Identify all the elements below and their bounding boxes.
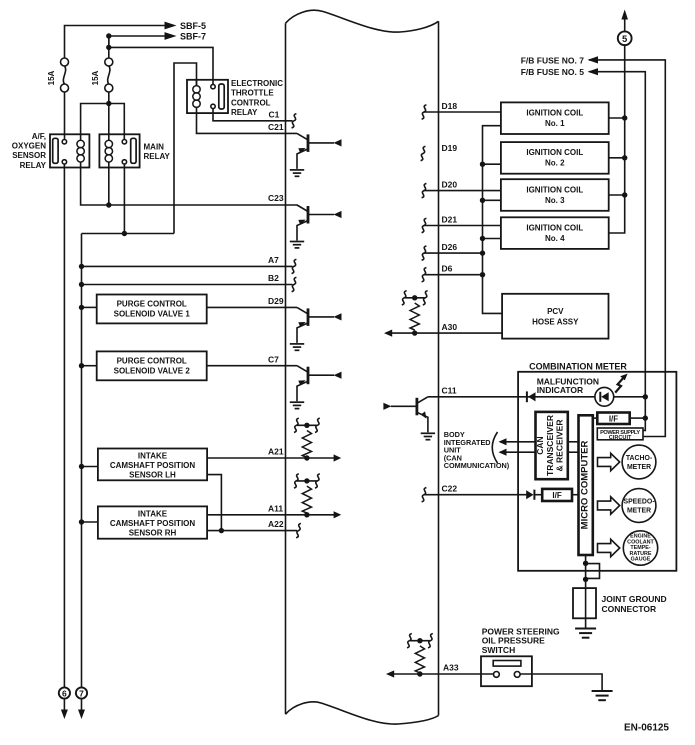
svg-text:C22: C22 xyxy=(442,483,458,493)
svg-text:METER: METER xyxy=(627,464,651,471)
speedometer xyxy=(622,489,656,523)
svg-text:GAUGE: GAUGE xyxy=(631,557,651,563)
node switch output junction xyxy=(122,231,127,236)
squiggle C1 xyxy=(292,114,297,128)
node B2 tap xyxy=(79,282,84,287)
purge control solenoid valve 2 xyxy=(97,351,207,380)
svg-text:C7: C7 xyxy=(268,354,279,364)
svg-text:COMBINATION METER: COMBINATION METER xyxy=(529,362,627,372)
block arrow coolant gauge xyxy=(598,539,620,556)
ignition coil No.2 xyxy=(501,142,609,174)
svg-text:I/F: I/F xyxy=(552,491,561,500)
svg-text:OXYGEN: OXYGEN xyxy=(12,142,46,151)
wire node5 arrow up xyxy=(624,17,626,32)
arrow to SBF-5 xyxy=(165,22,177,30)
I/F box bottom xyxy=(542,489,572,501)
squiggle D26 xyxy=(422,246,427,260)
wire bus branch coil2 xyxy=(483,163,501,165)
micro computer box xyxy=(579,415,593,555)
svg-text:6: 6 xyxy=(62,688,67,698)
svg-text:C23: C23 xyxy=(268,193,284,203)
wire C22 xyxy=(424,494,527,496)
svg-text:PURGE CONTROL: PURGE CONTROL xyxy=(117,300,187,309)
svg-text:C1: C1 xyxy=(269,110,280,120)
node fuse2/SBF7 junction xyxy=(106,33,111,38)
engine coolant temperature gauge xyxy=(623,531,657,565)
wire SBF-5 feed xyxy=(65,26,167,59)
arrow to SBF-7 xyxy=(165,32,177,40)
LED malfunction indicator lamp xyxy=(595,387,614,406)
wire bus branch coil3 xyxy=(483,199,501,201)
resistor R3 on A30 xyxy=(410,303,419,330)
intake camshaft position sensor RH xyxy=(98,506,207,538)
svg-text:INTAKE: INTAKE xyxy=(138,510,168,519)
wire A/F coil bottom to C23 xyxy=(81,168,298,206)
squiggle B2 xyxy=(292,277,297,291)
svg-text:A7: A7 xyxy=(268,255,279,265)
ignition coil No.3 xyxy=(501,179,609,211)
wire D6 xyxy=(424,274,483,276)
svg-text:CIRCUIT: CIRCUIT xyxy=(609,435,632,441)
arrow A33 out xyxy=(386,670,394,677)
wire B2 xyxy=(82,284,293,286)
arrow F/B7 xyxy=(588,56,599,63)
power supply circuit box xyxy=(597,428,643,440)
wire CAN to BIU 1 xyxy=(500,441,536,443)
wire fuse2 to relay coils xyxy=(81,104,125,140)
wire main coil bottom xyxy=(108,168,110,206)
wire A7 xyxy=(82,265,293,267)
node D6 junction xyxy=(480,272,485,277)
wire coil3 supply xyxy=(609,194,625,196)
wire A21 xyxy=(207,457,334,459)
wire D26 xyxy=(424,252,483,254)
combination meter box xyxy=(518,372,676,571)
resistor R2 pull-up on A11 xyxy=(302,486,311,513)
wire supply bus vertical to circle 7 xyxy=(81,234,83,688)
svg-text:& RECEIVER: & RECEIVER xyxy=(555,420,565,472)
resistor R1 pull-up on A21 xyxy=(302,431,311,458)
circled node 5 xyxy=(618,31,632,45)
wire micro to I/F xyxy=(593,417,598,419)
squiggle D21 xyxy=(422,218,427,232)
node micro ground 2 xyxy=(583,577,588,582)
node A22 junction xyxy=(219,528,224,533)
wire I/F to F/B5 xyxy=(630,417,646,419)
svg-text:D21: D21 xyxy=(442,215,458,225)
circled node 7 xyxy=(76,687,87,698)
transistor Q5 (C11 driver) xyxy=(383,397,435,440)
wire sensor LH to A22 xyxy=(207,475,221,531)
wire D18 to coil 1 xyxy=(424,111,501,113)
svg-text:IGNITION COIL: IGNITION COIL xyxy=(526,223,583,232)
wire coil1 supply xyxy=(609,117,625,119)
squiggle D19 xyxy=(421,146,426,160)
svg-text:SBF-5: SBF-5 xyxy=(180,21,206,31)
node C23 junction xyxy=(106,202,111,207)
wire coil common bus xyxy=(483,126,503,314)
circled node 6 xyxy=(59,687,70,698)
node sensor LH tap xyxy=(79,464,84,469)
svg-text:THROTTLE: THROTTLE xyxy=(231,89,274,98)
svg-text:METER: METER xyxy=(627,508,651,515)
ECM band left edge xyxy=(285,23,287,714)
svg-text:IGNITION COIL: IGNITION COIL xyxy=(526,185,583,194)
diode D1 on C11 xyxy=(526,391,528,402)
wire D21 to coil 4 xyxy=(424,225,501,227)
svg-text:D29: D29 xyxy=(268,296,284,306)
ignition coil No.1 xyxy=(501,102,609,134)
svg-text:INDICATOR: INDICATOR xyxy=(537,385,583,395)
svg-text:CAMSHAFT POSITION: CAMSHAFT POSITION xyxy=(110,461,196,470)
svg-text:F/B FUSE NO. 7: F/B FUSE NO. 7 xyxy=(521,55,585,65)
wire CAN to BIU 2 xyxy=(500,451,536,453)
wire C11 to F/B5 xyxy=(614,396,646,398)
svg-text:15A: 15A xyxy=(91,70,100,85)
arrow A30 out xyxy=(384,330,392,337)
arrow A21 into ECM xyxy=(334,454,342,461)
wire sensor LH supply xyxy=(82,466,98,468)
tachometer xyxy=(622,445,656,479)
svg-text:HOSE ASSY: HOSE ASSY xyxy=(532,318,579,327)
wire node 6 arrow down xyxy=(63,699,65,712)
purge control solenoid valve 1 xyxy=(97,295,207,324)
svg-text:15A: 15A xyxy=(47,70,56,85)
svg-text:CONNECTOR: CONNECTOR xyxy=(602,604,657,614)
ECM band right edge xyxy=(438,21,440,715)
svg-text:SWITCH: SWITCH xyxy=(482,645,516,655)
intake camshaft position sensor LH xyxy=(98,449,207,481)
squiggle C22 xyxy=(422,488,427,502)
node C11/F/B5 xyxy=(643,394,648,399)
node I/F junction xyxy=(643,415,648,420)
ignition coil No.4 xyxy=(501,217,609,249)
svg-text:5: 5 xyxy=(622,34,628,45)
wire supply bus horizontal xyxy=(82,233,175,235)
svg-text:IGNITION COIL: IGNITION COIL xyxy=(526,109,583,118)
svg-text:TRANSCEIVER: TRANSCEIVER xyxy=(545,415,555,476)
wire A/F switch to circle 6 xyxy=(63,164,65,687)
squiggle D18 xyxy=(422,105,427,119)
node micro ground 1 xyxy=(583,561,588,566)
wire C21 from ETC relay coil xyxy=(197,113,298,133)
svg-text:B2: B2 xyxy=(268,273,279,283)
lightning flash symbol xyxy=(615,378,623,393)
I/F box top xyxy=(597,413,629,425)
svg-text:RELAY: RELAY xyxy=(144,152,171,161)
wire CAN to micro 1 xyxy=(568,441,579,443)
ground joint connector xyxy=(575,629,596,638)
svg-text:D6: D6 xyxy=(442,264,453,274)
wire fuse1 to A/F relay xyxy=(64,92,66,140)
svg-text:JOINT GROUND: JOINT GROUND xyxy=(602,594,667,604)
svg-text:EN-06125: EN-06125 xyxy=(624,723,669,734)
node D26 junction xyxy=(480,250,485,255)
wire fuse2 down xyxy=(108,92,110,135)
wire to ETC relay coil xyxy=(174,63,197,234)
svg-text:CAN: CAN xyxy=(535,436,545,454)
brace BIU xyxy=(492,432,497,463)
svg-text:COMMUNICATION): COMMUNICATION) xyxy=(444,461,510,470)
squiggle A7 xyxy=(292,259,297,273)
node A7 tap xyxy=(79,264,84,269)
relay K3 electronic throttle control relay xyxy=(187,80,228,113)
squiggle D20 xyxy=(422,183,427,197)
transistor Q3 (D29 driver) xyxy=(290,307,342,350)
svg-text:D18: D18 xyxy=(442,101,458,111)
wire node 7 arrow down xyxy=(81,699,83,712)
squiggle A22 xyxy=(296,523,301,537)
diode D2 on C22 xyxy=(526,490,533,499)
svg-text:7: 7 xyxy=(79,688,84,698)
svg-text:C11: C11 xyxy=(442,385,457,395)
wire A11 xyxy=(207,514,334,516)
svg-text:CAMSHAFT POSITION: CAMSHAFT POSITION xyxy=(110,519,196,528)
arrow A11 into ECM xyxy=(334,511,342,518)
svg-text:A21: A21 xyxy=(268,447,284,457)
svg-text:RELAY: RELAY xyxy=(231,108,258,117)
wire micro ground xyxy=(585,555,587,588)
svg-text:A30: A30 xyxy=(442,322,458,332)
svg-text:A/F,: A/F, xyxy=(32,132,46,141)
wire SBF-7 feed xyxy=(109,36,166,59)
svg-text:C21: C21 xyxy=(268,122,284,132)
wire main switch output xyxy=(123,164,125,233)
wire valve2 supply xyxy=(82,365,97,367)
svg-text:F/B FUSE NO. 5: F/B FUSE NO. 5 xyxy=(521,67,585,77)
wire ground jog xyxy=(586,564,600,579)
svg-text:CONTROL: CONTROL xyxy=(231,98,271,107)
transistor Q2 (C23 driver) xyxy=(290,205,342,248)
svg-text:No. 1: No. 1 xyxy=(545,119,565,128)
svg-text:MAIN: MAIN xyxy=(144,143,165,152)
svg-text:SPEEDO-: SPEEDO- xyxy=(623,498,655,505)
svg-text:IGNITION COIL: IGNITION COIL xyxy=(526,148,583,157)
wire CAN to micro 2 xyxy=(568,451,579,453)
svg-text:D26: D26 xyxy=(442,242,458,252)
node fuse2 branch xyxy=(106,45,111,50)
ECM band top tear xyxy=(286,10,439,32)
svg-text:SENSOR LH: SENSOR LH xyxy=(129,470,176,479)
node valve1 tap xyxy=(79,305,84,310)
resistor R4 on A33 xyxy=(415,646,424,673)
wire bus branch coil4 xyxy=(483,238,501,240)
svg-text:SENSOR: SENSOR xyxy=(12,151,46,160)
svg-text:SOLENOID VALVE 1: SOLENOID VALVE 1 xyxy=(114,310,191,319)
wire switch to ground xyxy=(520,674,602,690)
svg-text:SENSOR RH: SENSOR RH xyxy=(129,528,177,537)
wire A30 xyxy=(386,332,502,334)
arrow F/B5 xyxy=(588,68,599,75)
wire F/B fuse no.5 xyxy=(589,72,645,431)
wire A22 xyxy=(207,530,297,532)
svg-text:TACHO-: TACHO- xyxy=(626,455,653,462)
svg-text:ELECTRONIC: ELECTRONIC xyxy=(231,79,283,88)
relay K1 A/F oxygen sensor relay xyxy=(50,134,89,167)
fuse F2 15A xyxy=(105,58,113,92)
wire D20 to coil 3 xyxy=(424,190,501,192)
node coil feed xyxy=(106,101,111,106)
wire C1 from ETC relay switch xyxy=(213,109,293,121)
PCV hose assy xyxy=(502,294,608,339)
wire D29 xyxy=(207,306,297,308)
svg-text:MICRO COMPUTER: MICRO COMPUTER xyxy=(580,441,591,530)
wire I/F to micro xyxy=(572,494,579,496)
svg-text:SBF-7: SBF-7 xyxy=(180,32,206,42)
squiggle D6 xyxy=(422,268,427,282)
ground power steering xyxy=(592,691,613,700)
svg-text:No. 3: No. 3 xyxy=(545,196,565,205)
block arrow tacho xyxy=(598,453,620,470)
svg-text:D20: D20 xyxy=(442,180,458,190)
ECM band bottom tear xyxy=(286,702,439,724)
svg-text:I/F: I/F xyxy=(609,415,618,424)
fuse F1 15A xyxy=(61,58,69,92)
wire sensor RH supply xyxy=(82,521,98,523)
CAN transceiver and receiver box xyxy=(536,412,568,479)
node valve2 tap xyxy=(79,363,84,368)
svg-text:D19: D19 xyxy=(442,143,458,153)
wire SBF-7 branch to ETC relay xyxy=(109,36,213,85)
wire C11 xyxy=(428,396,595,398)
block arrow speedo xyxy=(598,497,620,514)
wire coil4 supply elbow xyxy=(609,44,625,233)
transistor Q1 (C21 driver) xyxy=(290,133,342,176)
svg-text:A11: A11 xyxy=(268,503,283,513)
svg-text:A33: A33 xyxy=(443,663,459,673)
svg-text:PURGE CONTROL: PURGE CONTROL xyxy=(117,356,187,365)
wire C7 xyxy=(207,365,297,367)
svg-text:INTAKE: INTAKE xyxy=(138,452,168,461)
svg-text:RELAY: RELAY xyxy=(20,161,47,170)
wire diode to I/F xyxy=(534,494,542,496)
power steering oil pressure switch xyxy=(481,656,532,686)
wire valve1 supply xyxy=(82,306,97,308)
svg-text:SOLENOID VALVE 2: SOLENOID VALVE 2 xyxy=(114,366,191,375)
svg-text:A22: A22 xyxy=(268,519,284,529)
relay K2 main relay xyxy=(99,134,139,167)
node sensor RH tap xyxy=(79,519,84,524)
svg-text:No. 4: No. 4 xyxy=(545,234,565,243)
svg-text:No. 2: No. 2 xyxy=(545,159,565,168)
wire F/B fuse no.7 xyxy=(589,60,665,437)
joint ground connector xyxy=(573,588,596,618)
transistor Q4 (C7 driver) xyxy=(290,366,342,409)
wire coil2 supply xyxy=(609,157,625,159)
wire A33 xyxy=(388,673,494,675)
svg-text:PCV: PCV xyxy=(547,307,564,316)
